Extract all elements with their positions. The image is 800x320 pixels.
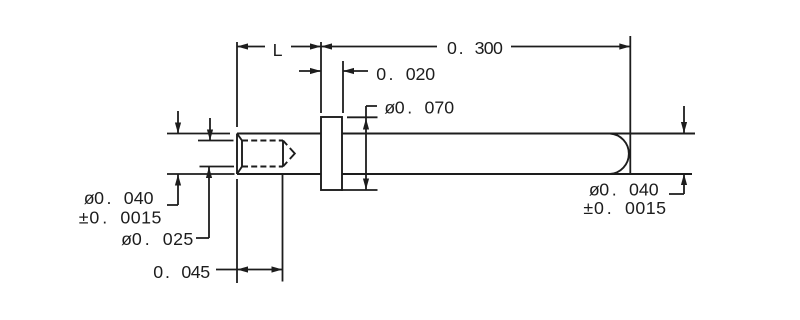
- extension line flange bottom: [341, 189, 378, 191]
- arrowhead 0.300 right: [619, 43, 630, 49]
- dimension line 0.020 left: [299, 70, 321, 72]
- extension line shaft bottom left: [167, 173, 235, 175]
- extension line bore top left: [198, 140, 234, 142]
- extension line bore depth: [282, 174, 284, 282]
- arrowhead dia 0.070 bottom: [363, 179, 369, 190]
- arrowhead L left: [237, 43, 248, 49]
- bore cone hidden line bottom: [283, 162, 287, 167]
- extension line flange left above: [320, 42, 322, 113]
- extension line flange right above: [342, 61, 344, 113]
- arrowhead dia 0.070 top: [363, 119, 369, 130]
- pin left end chamfer top: [237, 134, 242, 141]
- arrowhead right dia 0.040 down: [681, 122, 687, 133]
- bore hidden line bottom: [242, 166, 283, 168]
- svg-text:ø0.040: ø0.040: [84, 188, 154, 208]
- pin shaft bottom edge left of flange: [237, 173, 321, 175]
- svg-text:±0.0015: ±0.0015: [79, 208, 162, 228]
- pin left end face: [236, 134, 238, 175]
- svg-text:0.045: 0.045: [153, 262, 210, 282]
- svg-text:ø0.070: ø0.070: [384, 97, 454, 117]
- dimension line right dia 0.040 upper: [683, 106, 685, 133]
- arrowhead 0.045 right: [272, 266, 283, 272]
- arrowhead dia 0.025 down: [207, 130, 213, 141]
- dimension line left dia 0.040 lower with leader: [167, 175, 178, 206]
- pin chamfer inner edge: [241, 141, 243, 167]
- dimension line 0.020 right: [343, 70, 368, 72]
- arrowhead right dia 0.040 up: [681, 174, 687, 185]
- dimension line dia 0.025 upper: [209, 118, 211, 141]
- extension line left end below: [236, 179, 238, 283]
- svg-text:0.300: 0.300: [447, 38, 503, 58]
- extension line shaft top left: [167, 133, 230, 135]
- bore cone hidden line top: [283, 141, 287, 146]
- pin shaft top edge right of flange: [342, 133, 695, 135]
- svg-text:0.020: 0.020: [376, 64, 435, 84]
- extension line right end: [629, 36, 631, 174]
- bore end hidden line: [282, 141, 284, 167]
- arrowhead 0.020 right: [343, 68, 354, 74]
- pin rounded right end: [610, 134, 629, 175]
- extension line flange top: [347, 116, 378, 118]
- dimension line 0.300: [321, 46, 630, 48]
- pin shaft bottom edge right of flange: [342, 173, 692, 175]
- dimension line dia 0.070: [366, 106, 377, 190]
- svg-text:ø0.025: ø0.025: [121, 229, 193, 249]
- bore cone tip chevron: [290, 148, 295, 159]
- svg-text:±0.0015: ±0.0015: [583, 198, 666, 218]
- dimension line right dia 0.040 lower with leader: [669, 174, 684, 194]
- arrowhead 0.045 left: [237, 266, 248, 272]
- bore hidden line top: [242, 140, 283, 142]
- arrowhead 0.300 left: [321, 43, 332, 49]
- arrowhead left dia 0.040 up: [175, 175, 181, 186]
- extension line bore bottom left: [200, 166, 235, 168]
- arrowhead dia 0.025 up: [206, 167, 212, 178]
- dimension line dia 0.025 lower with leader: [196, 167, 209, 238]
- dimension line 0.045 with leader: [216, 269, 283, 271]
- pin shaft top edge left of flange: [237, 133, 321, 135]
- arrowhead left dia 0.040 down: [175, 123, 181, 134]
- dimension line left dia 0.040 upper: [177, 111, 179, 134]
- arrowhead 0.020 left: [310, 68, 321, 74]
- dimension line L: [237, 46, 321, 48]
- svg-text:ø0.040: ø0.040: [589, 180, 659, 200]
- extension line left end above: [236, 42, 238, 127]
- pin left end chamfer bottom: [237, 167, 242, 175]
- svg-text:L: L: [273, 40, 283, 60]
- arrowhead L right: [310, 43, 321, 49]
- flange F1: [321, 117, 342, 190]
